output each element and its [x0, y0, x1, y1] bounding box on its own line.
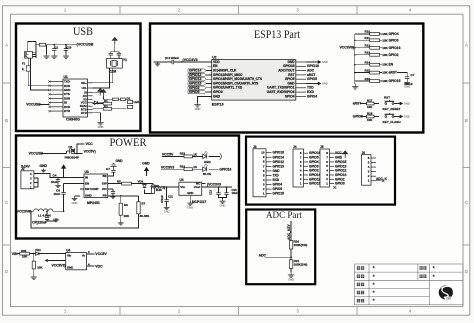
svg-text:U4: U4	[66, 249, 70, 253]
capacitor C4	[172, 60, 174, 64]
svg-text:ADC_KEY: ADC_KEY	[287, 223, 291, 240]
net flag GPIO2	[188, 86, 207, 89]
ESP13 section box	[150, 24, 423, 133]
ferrite bead L2	[39, 43, 45, 46]
svg-text:GPIO14: GPIO14	[273, 155, 285, 159]
ground ADC	[288, 273, 294, 278]
wire XI to crystal	[93, 68, 113, 83]
svg-text:A: A	[465, 43, 468, 48]
svg-text:CP[220uF: CP[220uF	[32, 221, 47, 225]
svg-text:D: D	[465, 269, 468, 274]
svg-text:36.46K: 36.46K	[140, 214, 151, 218]
svg-text:KEY_FLASH: KEY_FLASH	[383, 120, 401, 124]
wire esp gnd stem	[198, 96, 212, 102]
svg-text:R2: R2	[104, 104, 108, 108]
ground above C7p	[110, 164, 116, 171]
U1 right pin wires	[88, 83, 93, 113]
POWER section box	[16, 136, 239, 239]
svg-text:R12: R12	[365, 44, 371, 48]
svg-text:UD+: UD+	[81, 81, 87, 85]
title block table	[355, 264, 463, 305]
svg-text:R7: R7	[142, 202, 146, 206]
svg-text:C7: C7	[411, 73, 415, 77]
wire L1 right	[53, 210, 64, 212]
capacitor C1	[53, 45, 55, 49]
resistor R14	[355, 64, 370, 66]
ground below ESP	[194, 103, 200, 108]
svg-text:C7: C7	[106, 167, 110, 171]
title block label row1	[357, 266, 364, 270]
svg-text:R13: R13	[365, 51, 371, 55]
svg-text:VDC: VDC	[95, 264, 103, 268]
svg-text:C12: C12	[209, 189, 213, 195]
svg-text:GPIO16: GPIO16	[219, 167, 231, 171]
ground under C2	[65, 50, 67, 54]
wire EN stub	[208, 65, 212, 67]
wire Vout	[202, 186, 232, 188]
resistor R11	[355, 39, 370, 41]
LED D4 blue	[203, 164, 208, 171]
svg-text:R6: R6	[124, 203, 128, 207]
power flag triangle C4	[61, 164, 66, 168]
svg-text:DTR: DTR	[81, 111, 88, 115]
J2 pin stubs	[34, 174, 43, 188]
resistor R7	[138, 196, 140, 202]
fuse F1	[26, 66, 30, 71]
resistor R10	[33, 254, 35, 262]
svg-text:GND: GND	[67, 265, 73, 269]
svg-text:(VCC3V3: (VCC3V3	[183, 58, 198, 62]
svg-text:ESP13 Part: ESP13 Part	[254, 29, 301, 41]
svg-text:100K(1%): 100K(1%)	[294, 262, 308, 266]
svg-text:aRST: aRST	[389, 71, 397, 75]
svg-text:SW: SW	[102, 182, 107, 186]
svg-text:Q1: Q1	[68, 145, 72, 149]
svg-text:R18: R18	[180, 152, 186, 156]
wire below J1 a	[27, 58, 29, 66]
resistor R18	[367, 115, 375, 118]
svg-text:12M: 12M	[110, 69, 117, 73]
ground below ladder bus	[354, 83, 357, 85]
svg-text:GND: GND	[404, 115, 410, 119]
load capacitor C9	[117, 53, 121, 55]
svg-text:VIN: VIN	[12, 252, 18, 256]
IC U3 MP2451 body	[84, 174, 108, 198]
IC U2 ESP13 body	[212, 60, 296, 101]
IC U4 MCP1117 body	[179, 182, 202, 195]
transistor Q1	[67, 148, 75, 153]
no connect X J5	[333, 186, 336, 189]
svg-text:R5: R5	[117, 180, 121, 184]
gnd flag pin1	[306, 61, 318, 63]
net flag GPIO13	[188, 78, 207, 81]
svg-text:C4: C4	[53, 174, 57, 178]
resistor R21	[289, 260, 292, 269]
svg-text:GPIO5: GPIO5	[307, 77, 317, 81]
svg-text:100K(1%): 100K(1%)	[294, 243, 308, 247]
U1 left pin wires	[50, 82, 64, 111]
LED D1	[128, 100, 133, 103]
svg-text:(VCC3V3: (VCC3V3	[207, 182, 221, 186]
wire R15 to C7	[397, 73, 407, 77]
U1 left pin no-connect marks	[48, 80, 50, 82]
svg-text:D1: D1	[127, 96, 131, 100]
svg-text:GND: GND	[213, 94, 221, 98]
ground left of C4	[155, 62, 160, 66]
wire J1 to rail	[28, 42, 36, 52]
svg-text:GPIO0: GPIO0	[389, 38, 399, 42]
resistor R12B	[120, 98, 125, 100]
svg-text:J3: J3	[253, 145, 257, 149]
wire VBUS rail	[36, 44, 77, 46]
svg-text:GND: GND	[40, 164, 48, 168]
title block label row3	[357, 283, 364, 287]
wire XO to crystal	[93, 68, 110, 88]
svg-text:E_: E_	[25, 54, 29, 58]
ground under C11	[166, 202, 168, 206]
ground under U4	[187, 201, 193, 205]
svg-text:GPIO4: GPIO4	[307, 94, 317, 98]
wire BS to C7p	[108, 172, 114, 176]
ground under C12 C13	[219, 195, 227, 200]
gnd flag reset	[394, 103, 400, 105]
resistor R12A	[113, 98, 119, 100]
gnd flag flash	[394, 116, 400, 118]
wire FB line	[111, 195, 139, 197]
wire EN to C8	[64, 183, 80, 185]
svg-text:A: A	[5, 43, 8, 48]
resistor R16	[355, 80, 370, 82]
svg-text:CH340G: CH340G	[66, 118, 80, 122]
capacitor C4p	[57, 178, 59, 180]
svg-text:C10: C10	[67, 45, 72, 49]
svg-text:VCC3V3): VCC3V3)	[151, 186, 166, 190]
svg-text:R18: R18	[367, 112, 373, 116]
svg-text:R11: R11	[365, 36, 371, 40]
net flag VCC3V3 u5	[45, 259, 48, 262]
svg-text:10K: 10K	[22, 255, 28, 259]
svg-text:KEY_RESET: KEY_RESET	[383, 107, 401, 111]
wire U4 gnd stem	[189, 195, 191, 201]
svg-text:RST: RST	[384, 95, 390, 99]
svg-text:VCC5V: VCC5V	[95, 252, 107, 256]
svg-text:B: B	[5, 118, 8, 123]
svg-text:VCC3V3): VCC3V3)	[52, 263, 66, 267]
comp pin cap	[112, 189, 114, 192]
title block label banben	[420, 275, 427, 278]
U3 pin stubs	[80, 176, 113, 196]
svg-text:C11: C11	[168, 195, 173, 199]
LED D3 red	[203, 151, 208, 159]
load capacitor C3	[109, 53, 113, 55]
svg-text:TXD: TXD	[273, 173, 280, 177]
J6 net label ADC_KEY	[376, 180, 381, 182]
svg-text:GPIO2: GPIO2	[389, 53, 399, 57]
svg-text:GND: GND	[187, 206, 193, 210]
diode D2	[36, 252, 39, 256]
resistor R18p	[184, 155, 192, 158]
J1 pin stubs	[33, 53, 37, 57]
connector J2	[21, 171, 34, 189]
svg-text:D: D	[5, 269, 8, 274]
svg-text:R30: R30	[21, 249, 27, 253]
connector section box	[246, 137, 395, 205]
capacitor C13	[226, 187, 228, 193]
capacitor C11	[166, 187, 168, 200]
svg-text:MCP1117: MCP1117	[192, 200, 206, 204]
net label VCC5V pwr	[75, 153, 83, 155]
J3 pin wires	[266, 153, 272, 194]
diode D4	[93, 102, 95, 104]
svg-text:R14: R14	[365, 61, 371, 65]
svg-text:GND: GND	[220, 204, 226, 208]
switch KEY_RESET	[385, 100, 395, 105]
title block label row4	[357, 291, 364, 295]
svg-text:EN: EN	[85, 182, 89, 186]
J5 pin wires	[330, 153, 335, 183]
ground under R6	[120, 215, 122, 221]
svg-text:R10: R10	[365, 30, 371, 34]
ladder bus	[354, 34, 356, 84]
capacitor C12	[218, 187, 220, 193]
ground under C4p	[57, 181, 59, 183]
svg-text:(C4: (C4	[165, 56, 170, 60]
company logo EBT	[439, 285, 454, 300]
svg-text:GPIO16: GPIO16	[389, 46, 401, 50]
ground below C7	[406, 79, 408, 81]
crystal Y1 shield box	[107, 59, 123, 69]
wire U1 gnd stem	[93, 113, 101, 121]
connector J6	[362, 155, 372, 186]
svg-text:GPIO13: GPIO13	[273, 164, 285, 168]
svg-text:GND: GND	[195, 107, 201, 111]
U4 NC stub	[202, 183, 206, 185]
wire J2 to IC IN	[34, 174, 84, 178]
svg-text:U1: U1	[64, 75, 68, 79]
svg-text:10K: 10K	[124, 214, 130, 218]
resistor R10	[355, 33, 370, 35]
resistor R20	[289, 241, 292, 250]
svg-text:5-24V: 5-24V	[21, 164, 31, 168]
U5 right pins	[87, 254, 95, 266]
svg-text:GPIO16: GPIO16	[273, 151, 285, 155]
svg-text:GND: GND	[404, 84, 410, 88]
svg-text:GPIO15: GPIO15	[273, 192, 285, 196]
svg-text:(VCCUSB: (VCCUSB	[77, 43, 94, 47]
ground right of C5	[47, 220, 56, 221]
capacitor C7p	[111, 171, 115, 173]
ground under C1	[53, 50, 55, 54]
svg-text:IN: IN	[85, 176, 88, 180]
svg-text:BLUE: BLUE	[203, 172, 211, 176]
wire R21 to gnd	[290, 268, 292, 272]
connector J3	[253, 149, 266, 197]
svg-text:VCC: VCC	[86, 142, 94, 146]
ground under R10	[33, 269, 35, 275]
ADC section box	[246, 210, 315, 285]
ground below U1	[97, 121, 103, 126]
svg-text:U3: U3	[85, 170, 89, 174]
resistor R8	[152, 184, 154, 185]
svg-text:ADC: ADC	[259, 254, 267, 258]
svg-text:GND: GND	[273, 169, 281, 173]
svg-text:J4: J4	[293, 145, 297, 149]
svg-text:SW COMP: SW COMP	[85, 187, 99, 191]
J1 right bus	[35, 42, 37, 58]
svg-text:GND: GND	[322, 60, 328, 64]
svg-text:10K: 10K	[37, 265, 43, 269]
gnd flag pin6	[306, 83, 318, 85]
svg-text:R19: R19	[180, 165, 186, 169]
svg-text:GPIO12: GPIO12	[273, 160, 285, 164]
svg-text:VCC5V): VCC5V)	[84, 149, 96, 153]
resistor R17	[367, 102, 375, 105]
power net VCC	[77, 144, 85, 154]
capacitor C2	[65, 45, 67, 49]
svg-text:BS: BS	[102, 174, 106, 178]
svg-text:GPIO4: GPIO4	[273, 183, 283, 187]
wire D+ line	[28, 71, 49, 86]
resistor R12	[355, 47, 370, 49]
svg-text:GND: GND	[98, 125, 104, 129]
connector J5	[320, 149, 330, 187]
IC U1 CH340G body	[63, 79, 88, 117]
title block label row5	[357, 299, 364, 303]
power flag J5	[343, 151, 348, 158]
power flag above crystal	[112, 37, 117, 44]
resistor R2	[103, 107, 112, 110]
svg-text:GPIO4: GPIO4	[285, 94, 295, 98]
svg-text:GPIO15: GPIO15	[389, 79, 401, 83]
wire R20 to node	[290, 249, 292, 257]
svg-text:EN: EN	[389, 63, 394, 67]
svg-text:GND: GND	[72, 201, 78, 205]
net flag GPIO14	[188, 69, 207, 72]
svg-text:GND: GND	[322, 82, 328, 86]
svg-text:J5: J5	[320, 145, 324, 149]
svg-text:R17: R17	[367, 99, 373, 103]
svg-text:E_: E_	[22, 67, 26, 71]
title block label tuhao	[420, 266, 427, 269]
svg-text:Y1: Y1	[123, 58, 127, 62]
svg-text:10K: 10K	[367, 105, 373, 109]
svg-text:GND: GND	[85, 193, 93, 197]
resistor R6	[120, 196, 122, 203]
switch KEY_FLASH	[385, 113, 395, 118]
svg-text:GND: GND	[187, 191, 193, 195]
svg-text:Vout: Vout	[194, 185, 201, 189]
svg-text:Vo: Vo	[82, 253, 86, 257]
svg-text:GND: GND	[116, 159, 124, 163]
diode VD2	[144, 183, 146, 186]
svg-text:10K: 10K	[367, 118, 373, 122]
svg-text:C: C	[465, 200, 468, 205]
svg-text:POWER: POWER	[110, 137, 147, 149]
net flag GPIO12	[188, 73, 207, 76]
svg-text:DTR: DTR	[64, 109, 71, 113]
svg-text:10: 10	[261, 151, 265, 155]
svg-text:J6: J6	[362, 151, 366, 155]
svg-text:RED: RED	[204, 160, 211, 164]
svg-text:C: C	[5, 200, 8, 205]
svg-text:GPIO4: GPIO4	[389, 32, 399, 36]
resistor R5	[122, 182, 132, 185]
svg-text:GND: GND	[53, 218, 59, 222]
capacitor C8	[63, 184, 65, 193]
title block label row2	[357, 274, 364, 278]
net arrows V3	[98, 89, 103, 96]
svg-text:B: B	[465, 118, 468, 123]
resistor R19p	[184, 168, 192, 171]
USB connector J1	[25, 52, 33, 59]
svg-text:GPIO0: GPIO0	[189, 90, 200, 94]
svg-text:GND: GND	[288, 277, 294, 281]
wire D- line	[31, 58, 50, 90]
svg-text:100nF: 100nF	[171, 56, 180, 60]
resistor R9	[20, 252, 30, 255]
svg-text:Vin: Vin	[180, 185, 185, 189]
capacitor C5	[46, 211, 48, 216]
U2 right pin wires	[296, 62, 306, 96]
svg-text:USB: USB	[73, 24, 93, 38]
resistor R15	[355, 72, 370, 74]
svg-text:R16: R16	[365, 77, 371, 81]
svg-text:470nF: 470nF	[160, 195, 164, 203]
svg-text:GPIO0: GPIO0	[335, 182, 345, 186]
wire SW row	[111, 183, 122, 185]
wire bottom rail	[31, 211, 139, 228]
ground under U3	[75, 195, 81, 197]
svg-text:aRST: aRST	[353, 102, 361, 106]
svg-text:VD4: VD4	[35, 248, 41, 252]
J4 pin wires	[304, 153, 309, 183]
J6 pin wires	[371, 158, 376, 181]
svg-text:ESP13: ESP13	[212, 103, 224, 107]
resistor R13	[355, 54, 370, 56]
svg-text:PMOS04P: PMOS04P	[65, 155, 79, 159]
wire C4 to VDD	[174, 61, 212, 63]
svg-text:GND: GND	[142, 162, 150, 166]
svg-text:GPIO5: GPIO5	[273, 187, 283, 191]
svg-text:10uF: 10uF	[232, 191, 239, 195]
inductor L1	[34, 209, 53, 211]
capacitor C7	[405, 77, 409, 79]
svg-text:LED: LED	[134, 100, 140, 104]
svg-text:MP2451: MP2451	[87, 201, 100, 205]
ground mid rail	[46, 45, 48, 54]
resistor R1	[103, 102, 112, 105]
svg-text:GND: GND	[164, 210, 170, 214]
svg-text:10nF: 10nF	[54, 192, 61, 196]
svg-text:C1: C1	[55, 45, 59, 49]
svg-text:EBT: EBT	[446, 298, 451, 300]
USB section box	[16, 24, 141, 132]
svg-text:R15: R15	[365, 68, 371, 72]
IC U5 body	[66, 253, 87, 270]
net flag GPIO15	[188, 82, 207, 85]
svg-text:ADC Part: ADC Part	[266, 211, 302, 221]
svg-text:U4: U4	[180, 178, 184, 182]
svg-text:10uF: 10uF	[51, 180, 58, 184]
net flag GPIO0	[188, 90, 207, 93]
wire ADC_KEY vertical	[290, 221, 292, 243]
svg-text:GPIO13: GPIO13	[309, 182, 321, 186]
svg-text:Vin: Vin	[67, 253, 72, 257]
connector J4	[293, 149, 304, 187]
svg-text:GND: GND	[404, 102, 410, 106]
svg-text:RXD: RXD	[273, 178, 280, 182]
crystal Y1 element	[112, 60, 116, 66]
